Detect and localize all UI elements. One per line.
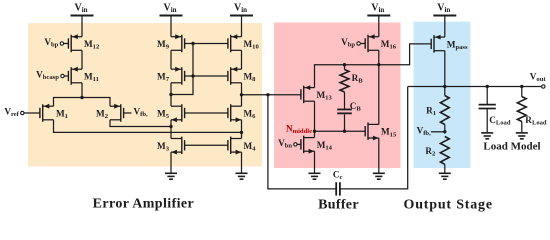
- svg-text:Error Amplifier: Error Amplifier: [93, 196, 195, 211]
- transistor M8 (PMOS): [228, 67, 256, 85]
- region: Output Stage background: [414, 22, 471, 168]
- svg-text:CLoad: CLoad: [489, 115, 511, 127]
- node label N_middle: [286, 124, 312, 136]
- ground under M15: [373, 173, 385, 179]
- junction M15/M16 drains on buffer node: [377, 63, 380, 66]
- ground under M4: [236, 173, 248, 179]
- svg-text:Vin: Vin: [371, 2, 384, 13]
- transistor M3 (NMOS): [157, 137, 185, 155]
- wire M7-M8 gates: [185, 75, 228, 77]
- junction R_Load on rail: [520, 85, 523, 88]
- transistor M14 (NMOS): [301, 136, 333, 154]
- transistor M12 (PMOS): [68, 34, 100, 52]
- transistor M13 (PMOS): [301, 85, 333, 103]
- wire buffer top node: [315, 44, 432, 88]
- capacitor C_B: [337, 92, 361, 131]
- wire V_in to M12 source: [81, 16, 83, 37]
- svg-text:Vin: Vin: [74, 2, 87, 13]
- label V_fb at divider: [417, 125, 445, 137]
- capacitor C_Load: [479, 87, 511, 133]
- junction V_fb node: [443, 130, 446, 133]
- transistor M2 (PMOS): [96, 104, 124, 122]
- wire M2 drain to fold node left: [110, 120, 171, 127]
- wire M16 drain to buffer node: [378, 50, 380, 64]
- transistor M11 (PMOS): [68, 67, 99, 85]
- junction fold node right: [240, 131, 243, 134]
- wire M14 source to ground: [314, 151, 316, 173]
- wire V_out rail: [408, 86, 542, 88]
- svg-text:Output Stage: Output Stage: [404, 198, 493, 213]
- transistor M6 (NMOS): [228, 104, 256, 122]
- junction R_B on buffer node: [343, 63, 346, 66]
- wire M11 drain to tail node: [81, 83, 83, 98]
- input terminal V_bp (buffer): [341, 37, 365, 49]
- region: Buffer background: [274, 23, 401, 169]
- capacitor C_c: [333, 170, 343, 196]
- junction gate bias on M7 drain: [169, 93, 172, 96]
- svg-text:Vref: Vref: [4, 107, 19, 119]
- junction M9/M10 gate tap: [191, 42, 194, 45]
- svg-text:Vin: Vin: [234, 2, 247, 13]
- power V_in (over M10): [230, 2, 253, 15]
- ground under R_Load: [516, 133, 528, 139]
- label Error Amplifier: [93, 196, 195, 211]
- wire M10 drain to M8 source: [241, 50, 243, 69]
- junction error-amp output node: [240, 93, 243, 96]
- junction C_B on N_middle wire: [343, 130, 346, 133]
- junction Mpass drain / R1: [443, 85, 446, 88]
- wire M3-M4 gates: [185, 144, 228, 146]
- junction C_Load on rail: [486, 85, 489, 88]
- ground under M3: [165, 173, 177, 179]
- wire C_c right plate to V_out rail: [340, 87, 408, 189]
- svg-text:Vout: Vout: [530, 72, 547, 84]
- wire M3 source to ground: [170, 152, 172, 173]
- power V_in (over Mpass): [433, 2, 456, 15]
- wire Mpass drain to V_out rail: [444, 51, 446, 87]
- wire N_middle (M13 drain to M15 gate): [315, 101, 366, 131]
- label V_fb at M2 gate: [124, 107, 148, 119]
- wire V_in to Mpass source: [444, 16, 446, 38]
- ground under M14: [309, 173, 321, 179]
- junction tail node: [80, 96, 83, 99]
- svg-text:Vin: Vin: [437, 2, 450, 13]
- wire M7 drain to M5 drain: [170, 83, 172, 106]
- transistor M10 (PMOS): [228, 34, 260, 52]
- wire M8 drain to M6 drain (output node): [241, 83, 243, 106]
- power V_in (over M9): [160, 2, 183, 15]
- output terminal V_out: [530, 72, 547, 89]
- wire M9 drain to M7 source: [170, 50, 172, 69]
- transistor M5 (NMOS): [157, 104, 185, 122]
- input terminal V_ref: [4, 107, 40, 119]
- resistor R1: [426, 87, 449, 132]
- input terminal V_bcasp: [36, 70, 68, 82]
- ground under C_Load: [481, 133, 493, 139]
- wire C_c tap down and left plate lead: [268, 95, 336, 189]
- wire M6 source to M4 drain: [241, 120, 243, 139]
- junction C_c tap on output wire: [266, 93, 269, 96]
- label Output Stage: [404, 198, 493, 213]
- svg-text:Cc: Cc: [333, 170, 343, 182]
- wire M5-M6 gates: [185, 112, 228, 114]
- label Load Model: [483, 141, 540, 153]
- wire V_in to M10 source: [241, 16, 243, 37]
- junction on M7/M8 gate wire: [191, 74, 194, 77]
- transistor M16 (PMOS): [365, 34, 397, 52]
- ground under R2: [439, 173, 451, 179]
- svg-text:Vin: Vin: [163, 2, 176, 13]
- wire M15 source to ground: [378, 138, 380, 173]
- wire error-amp output to M13 gate: [242, 94, 302, 96]
- svg-text:RLoad: RLoad: [525, 115, 547, 127]
- wire M5 source to M3 drain: [170, 120, 172, 139]
- wire gate tap down to M7 drain: [171, 44, 193, 95]
- transistor Mpass (PMOS): [431, 35, 468, 53]
- svg-text:Buffer: Buffer: [318, 198, 359, 213]
- resistor R_B: [340, 65, 363, 92]
- transistor M4 (NMOS): [228, 137, 256, 155]
- wire M12 drain to M11 source: [81, 50, 83, 69]
- wire M4 source to ground: [241, 152, 243, 173]
- power V_in (over M16): [367, 2, 390, 15]
- wire M9-M10 gates: [185, 43, 228, 45]
- transistor M15 (NMOS): [365, 122, 397, 140]
- input terminal V_bn: [278, 138, 301, 150]
- junction N_middle node: [313, 130, 316, 133]
- wire V_in to M16 source: [378, 16, 380, 37]
- label Buffer: [318, 198, 359, 213]
- transistor M9 (PMOS): [157, 34, 185, 52]
- junction fold node left: [169, 125, 172, 128]
- input terminal V_bp: [44, 37, 68, 49]
- transistor M7 (PMOS): [157, 67, 185, 85]
- resistor R2: [425, 137, 449, 174]
- wire M1 drain to fold node right: [54, 120, 242, 133]
- region: Error Amplifier background: [28, 23, 262, 167]
- wire V_in to M9 source: [170, 16, 172, 37]
- resistor R_Load: [517, 87, 547, 133]
- svg-text:Load Model: Load Model: [483, 141, 540, 153]
- wire M14 drain to N_middle: [314, 131, 316, 137]
- wire tail node (M1/M2 sources): [54, 98, 111, 107]
- power V_in (over M12): [71, 2, 94, 15]
- transistor M1 (PMOS): [40, 104, 68, 122]
- wire M15 drain to buffer node: [378, 65, 380, 125]
